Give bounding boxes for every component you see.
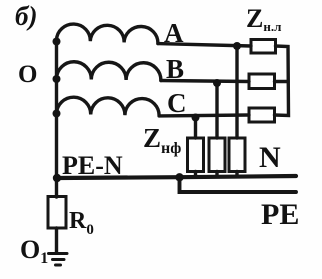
resistor Znf1 bbox=[188, 138, 204, 172]
svg-text:PE-N: PE-N bbox=[62, 151, 123, 180]
svg-text:N: N bbox=[259, 141, 281, 174]
svg-text:Zн.л: Zн.л bbox=[246, 4, 281, 34]
node tap C bbox=[53, 110, 61, 118]
wire phase A bbox=[158, 44, 251, 46]
resistor Znf3 bbox=[229, 138, 245, 172]
wire drop B to Znf2 bbox=[215, 83, 218, 139]
wire Znl2 right stub bbox=[275, 80, 289, 83]
node N split bbox=[175, 173, 183, 181]
wire Znf2 bottom stub bbox=[215, 172, 218, 177]
ground O1 bbox=[49, 254, 68, 266]
resistor R0 bbox=[48, 197, 66, 229]
wire PE drop bbox=[180, 178, 297, 193]
node C drop bbox=[192, 114, 200, 122]
wire N bus bbox=[57, 176, 296, 178]
wire R0 to ground bbox=[55, 228, 58, 252]
wire drop A to Znf3 bbox=[235, 46, 238, 138]
svg-text:R0: R0 bbox=[69, 208, 94, 238]
wire phase B bbox=[161, 81, 249, 82]
winding B bbox=[57, 62, 161, 81]
node B drop bbox=[213, 79, 221, 87]
wire phase C bbox=[159, 113, 249, 117]
winding C bbox=[57, 97, 160, 116]
wire Znf1 bottom stub bbox=[194, 172, 197, 177]
svg-text:PE: PE bbox=[261, 198, 299, 231]
svg-text:B: B bbox=[166, 54, 184, 84]
resistor Znf2 bbox=[209, 138, 225, 172]
svg-text:C: C bbox=[167, 88, 187, 118]
resistor Znl1 bbox=[251, 40, 276, 54]
node PE-N junction bbox=[53, 174, 61, 182]
winding A bbox=[57, 24, 158, 44]
svg-text:О: О bbox=[18, 61, 37, 88]
svg-text:Zнф: Zнф bbox=[143, 123, 181, 157]
node tap B bbox=[53, 75, 61, 83]
wire Znf3 bottom stub bbox=[235, 172, 238, 177]
svg-text:О1: О1 bbox=[20, 235, 48, 267]
resistor Znl3 bbox=[249, 108, 275, 122]
node A drop bbox=[233, 42, 241, 50]
wire Znl right rail bbox=[275, 46, 289, 116]
svg-text:б): б) bbox=[15, 1, 37, 31]
svg-text:A: A bbox=[164, 18, 184, 48]
wire left spine O..PE-N bbox=[55, 41, 58, 197]
resistor Znl2 bbox=[249, 74, 275, 89]
node tap A bbox=[53, 38, 61, 46]
wire drop C to Znf1 bbox=[194, 117, 197, 138]
